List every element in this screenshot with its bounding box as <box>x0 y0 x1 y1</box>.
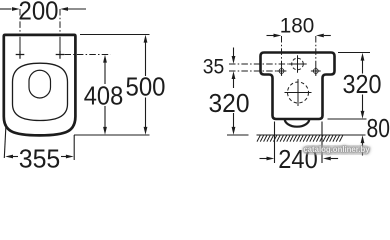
dim 240 arrows <box>260 157 339 161</box>
rear fixing hole right <box>311 66 321 76</box>
ext 320 right top <box>338 52 370 54</box>
ext 240 left <box>274 122 276 164</box>
dim 180 centerline right <box>315 36 317 66</box>
dim 35 arrows <box>232 48 236 64</box>
dim 500 line <box>144 35 148 135</box>
svg-text:320: 320 <box>343 69 382 99</box>
toilet top view outline <box>4 35 76 135</box>
ground line <box>227 134 366 136</box>
dim 320 left line <box>232 71 236 135</box>
centerline 35 lower <box>229 70 277 72</box>
supply circle cross <box>288 55 306 72</box>
watermark catalog.onliner.by <box>303 145 370 155</box>
svg-text:500: 500 <box>126 72 166 102</box>
dim 200 left arrow <box>0 7 20 11</box>
svg-text:320: 320 <box>209 88 250 118</box>
ext line bottom (500/408) <box>74 134 150 136</box>
rear fixing hole left <box>277 66 287 76</box>
dim 180 arrows <box>267 34 331 38</box>
dim 80 arrows <box>361 135 365 155</box>
svg-text:80: 80 <box>367 113 390 143</box>
dim 355 arrows <box>5 155 74 159</box>
flush circle (dashed) <box>288 82 309 103</box>
dim 200 right arrow <box>60 7 86 11</box>
ext line 355 right <box>73 135 75 160</box>
ground hatching <box>257 135 343 141</box>
ext line top (500) <box>80 34 150 36</box>
dim 408 line <box>103 55 107 135</box>
dim 320 right line <box>361 53 365 119</box>
svg-text:35: 35 <box>203 56 225 79</box>
svg-text:200: 200 <box>19 0 59 26</box>
dim 200 centerline right <box>59 9 61 33</box>
svg-text:355: 355 <box>19 144 61 170</box>
svg-text:408: 408 <box>84 81 124 111</box>
ext line 355 left <box>4 124 6 158</box>
outlet pipe arc <box>285 119 310 127</box>
flush circle cross <box>285 79 312 106</box>
bowl opening <box>29 70 51 98</box>
ext 240 right <box>321 122 323 164</box>
fixing hole cross right <box>56 50 65 59</box>
dim 180 centerline left <box>281 36 283 66</box>
supply circle (dashed) <box>292 58 304 70</box>
fixing hole cross left <box>16 50 25 59</box>
svg-text:180: 180 <box>280 15 315 38</box>
ext 80 top (toilet bottom) <box>328 118 367 120</box>
rear view outline <box>261 53 335 120</box>
centerline 35 upper <box>229 63 288 65</box>
hole centerline to 408 <box>65 54 111 56</box>
bowl rim <box>13 63 68 120</box>
dim 200 centerline left <box>19 9 21 33</box>
